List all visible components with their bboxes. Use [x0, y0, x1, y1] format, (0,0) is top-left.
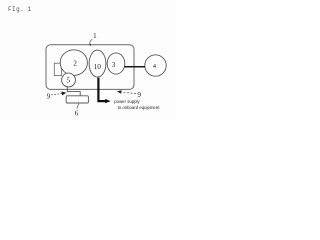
svg-text:1: 1	[93, 32, 97, 40]
wire from circle 5 down to regulator 6	[67, 86, 80, 95]
svg-text:4: 4	[153, 63, 157, 70]
svg-text:6: 6	[75, 109, 79, 118]
svg-text:1: 1	[28, 6, 32, 13]
dashed leader left 9	[51, 94, 62, 95]
leader squiggle for label 6	[77, 103, 79, 109]
svg-text:2: 2	[73, 58, 77, 67]
svg-text:to onboard equipment: to onboard equipment	[118, 105, 161, 110]
svg-text:5: 5	[66, 76, 70, 85]
svg-text:9: 9	[137, 90, 141, 99]
thick wire from 3 to 4	[125, 66, 145, 68]
dashed leader right 9	[122, 92, 136, 93]
regulator box 6	[66, 96, 88, 103]
svg-text:3: 3	[112, 60, 116, 69]
svg-text:9: 9	[47, 92, 51, 101]
thick power supply line with arrow	[98, 78, 105, 102]
circle 3 (rectifier)	[107, 53, 125, 74]
svg-text:10: 10	[94, 62, 102, 71]
circle 5 (small pulley)	[62, 73, 76, 87]
leader line for label 1	[90, 39, 92, 44]
svg-text:power supply: power supply	[114, 99, 140, 104]
circle 4 (battery)	[145, 55, 166, 76]
svg-text:FIg.: FIg.	[8, 6, 24, 13]
enclosure box 1 (generator housing)	[46, 45, 134, 90]
circle 2 (rotor)	[60, 50, 87, 76]
ellipse 10 (stator)	[89, 50, 106, 77]
bracket rectangle on left of circle 2	[54, 63, 61, 75]
